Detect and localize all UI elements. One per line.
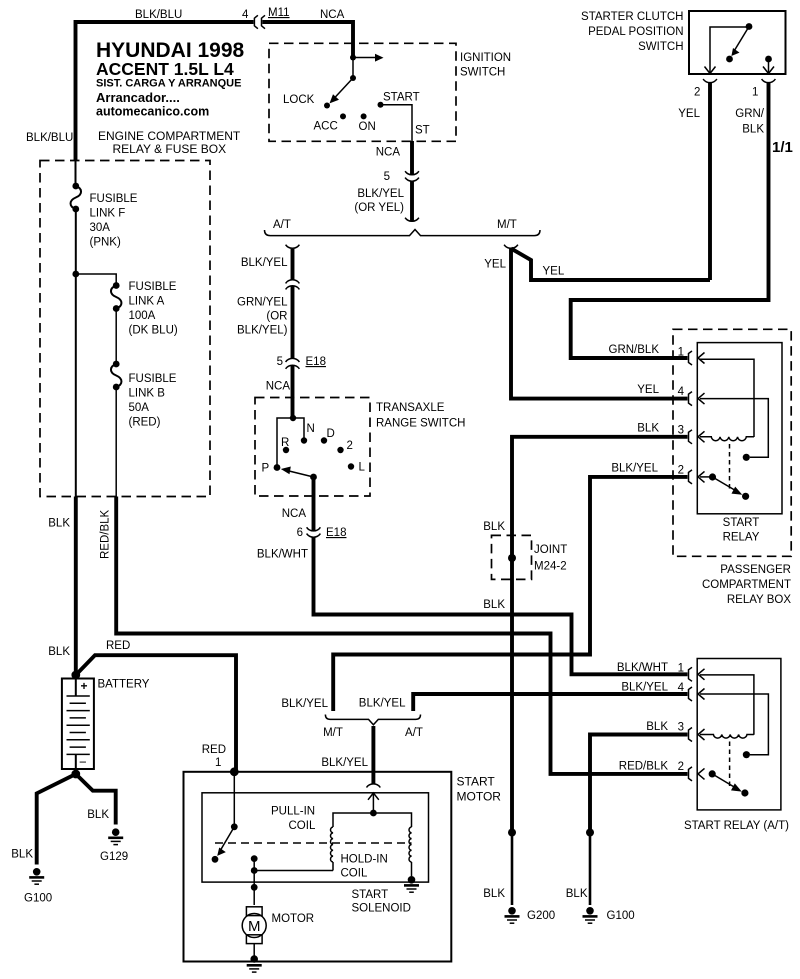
svg-text:G100: G100	[24, 893, 52, 905]
wire RED battery to start motor	[76, 655, 236, 771]
transaxle switch arm	[310, 474, 317, 481]
start relay A/T switch arm	[709, 770, 716, 777]
svg-text:2: 2	[347, 440, 353, 452]
starter clutch pedal position switch box	[689, 11, 786, 74]
pin 2 arrow	[705, 67, 716, 74]
wire BLK/YEL (OR YEL)	[410, 181, 414, 221]
start relay A/T actuator dashed line	[729, 742, 731, 788]
svg-text:1/1: 1/1	[772, 139, 793, 156]
connector A/T branch top	[286, 245, 300, 249]
ground G100 left	[33, 868, 41, 876]
svg-text:JOINT: JOINT	[534, 544, 567, 556]
wire BLK/YEL relay pin2 to M/T bracket	[333, 477, 687, 711]
svg-text:M24-2: M24-2	[534, 561, 567, 573]
start relay A/T pin 2	[689, 767, 693, 781]
contact R	[283, 447, 289, 453]
svg-text:P: P	[262, 463, 270, 475]
svg-text:START: START	[457, 775, 496, 789]
svg-text:COMPARTMENT: COMPARTMENT	[702, 579, 791, 591]
svg-text:3: 3	[678, 425, 684, 437]
svg-text:ACC: ACC	[314, 121, 338, 133]
svg-text:YEL: YEL	[543, 266, 565, 278]
svg-text:2: 2	[678, 465, 684, 477]
svg-text:TRANSAXLE: TRANSAXLE	[376, 402, 445, 414]
wire BLK start relay A/T pin 3 to G100	[590, 735, 688, 833]
svg-text:M/T: M/T	[497, 219, 517, 231]
node transaxle feed	[290, 415, 296, 421]
start motor contact switch	[233, 772, 235, 825]
node splice G200 wire	[508, 829, 516, 837]
svg-text:Arrancador....: Arrancador....	[96, 90, 180, 105]
node solenoid feed	[370, 810, 377, 817]
contact ON	[361, 113, 367, 119]
svg-text:A/T: A/T	[273, 219, 291, 231]
svg-text:BLK: BLK	[566, 888, 588, 900]
wire GRN/BLK pedal pin 1 to start relay pin 1	[571, 83, 769, 358]
svg-text:BLK: BLK	[483, 521, 505, 533]
svg-text:BLK: BLK	[637, 423, 659, 435]
svg-text:ST: ST	[415, 125, 430, 137]
wire BLK battery to G129	[76, 774, 116, 825]
node ignition feed	[350, 55, 356, 61]
svg-text:L: L	[359, 462, 366, 474]
start relay pin 1	[689, 351, 693, 365]
node joint M24-2	[508, 554, 516, 562]
svg-text:COIL: COIL	[341, 868, 368, 880]
svg-text:BLK/YEL: BLK/YEL	[241, 257, 288, 269]
svg-text:MOTOR: MOTOR	[457, 790, 502, 804]
svg-text:BLK: BLK	[483, 888, 505, 900]
svg-text:G100: G100	[607, 910, 635, 922]
svg-text:RED: RED	[202, 744, 226, 756]
svg-text:PULL-IN: PULL-IN	[271, 806, 315, 818]
svg-text:NCA: NCA	[320, 9, 345, 21]
start relay A/T pin 3	[689, 728, 693, 742]
svg-text:NCA: NCA	[376, 147, 401, 159]
svg-text:A/T: A/T	[405, 727, 423, 739]
svg-text:automecanico.com: automecanico.com	[96, 105, 209, 119]
wire down from link F	[75, 209, 77, 497]
wire BLK/YEL bracket to start motor	[371, 726, 375, 784]
node motor contact	[251, 855, 258, 862]
passenger compartment relay box (dashed)	[673, 329, 791, 556]
svg-text:D: D	[327, 428, 335, 440]
svg-text:PEDAL POSITION: PEDAL POSITION	[588, 26, 683, 38]
connector M11	[254, 15, 258, 28]
svg-text:START RELAY (A/T): START RELAY (A/T)	[684, 820, 789, 832]
svg-text:NCA: NCA	[266, 381, 291, 393]
svg-text:BLK/YEL: BLK/YEL	[321, 757, 368, 769]
svg-text:GRN/BLK: GRN/BLK	[609, 344, 660, 356]
pin 2 connector	[703, 79, 717, 83]
start relay switch arm	[709, 473, 716, 480]
svg-text:LINK A: LINK A	[129, 296, 165, 308]
bracket M/T A/T join	[325, 715, 420, 725]
contact P	[274, 464, 281, 471]
start relay A/T internals: pin1 to coil	[700, 675, 754, 735]
start relay pin 2	[689, 470, 693, 484]
wire BLK/BLU inside fuse box	[75, 161, 77, 186]
svg-text:RELAY BOX: RELAY BOX	[727, 594, 791, 606]
svg-text:ENGINE COMPARTMENT: ENGINE COMPARTMENT	[98, 129, 241, 143]
svg-text:BLK: BLK	[646, 721, 668, 733]
ground motor	[250, 955, 258, 963]
arrow down to bracket	[405, 218, 419, 222]
connector inline A/T branch	[286, 280, 300, 284]
wire ST inside box	[381, 105, 413, 141]
solenoid actuator dashed line	[215, 842, 412, 844]
wire NCA to ignition switch	[262, 22, 353, 57]
wire GRN/YEL (OR BLK/YEL)	[291, 286, 295, 358]
fusible link F 30A	[72, 183, 79, 190]
svg-text:PASSENGER: PASSENGER	[720, 564, 791, 576]
svg-text:SWITCH: SWITCH	[460, 67, 505, 79]
svg-text:4: 4	[678, 682, 685, 694]
svg-text:1: 1	[678, 347, 684, 359]
svg-text:6: 6	[297, 527, 303, 539]
svg-text:GRN/: GRN/	[735, 108, 765, 120]
wire NCA into transaxle	[291, 365, 295, 418]
svg-text:RANGE SWITCH: RANGE SWITCH	[376, 418, 465, 430]
wire NCA out of transaxle	[312, 477, 316, 531]
svg-text:2: 2	[694, 87, 700, 99]
start relay A/T pin 1	[689, 667, 693, 681]
node battery +	[71, 671, 80, 680]
svg-text:START: START	[352, 889, 389, 901]
wire ST below ignition	[410, 141, 414, 174]
start relay actuator dashed line	[729, 444, 731, 490]
start relay A/T box	[697, 659, 781, 810]
svg-text:4: 4	[242, 9, 249, 21]
connector M/T branch top	[504, 245, 518, 249]
svg-text:BLK/WHT: BLK/WHT	[257, 549, 308, 561]
svg-text:30A: 30A	[90, 222, 111, 234]
svg-text:50A: 50A	[129, 402, 150, 414]
svg-text:E18: E18	[326, 527, 346, 539]
wire YEL M/T to start relay pin 4	[511, 249, 688, 399]
svg-text:RED/BLK: RED/BLK	[619, 761, 669, 773]
contact ACC	[340, 113, 346, 119]
svg-text:GRN/YEL: GRN/YEL	[237, 297, 288, 309]
svg-text:START: START	[383, 92, 420, 104]
pedal switch internals	[710, 27, 746, 73]
pin 1 connector	[762, 79, 776, 83]
svg-text:1: 1	[215, 757, 221, 769]
svg-text:100A: 100A	[129, 310, 156, 322]
svg-text:ACCENT 1.5L L4: ACCENT 1.5L L4	[96, 59, 234, 79]
ground hold-in coil	[408, 876, 416, 884]
node battery -	[71, 770, 80, 779]
svg-text:(PNK): (PNK)	[90, 237, 121, 249]
svg-text:YEL: YEL	[637, 384, 659, 396]
joint M24-2 box (dashed)	[492, 535, 532, 579]
solenoid inner box	[202, 793, 429, 882]
svg-text:(OR: (OR	[266, 311, 287, 323]
ignition switch box (dashed)	[269, 43, 456, 141]
contact START	[378, 102, 384, 108]
svg-text:1: 1	[752, 87, 758, 99]
contact 2	[337, 447, 343, 453]
svg-text:FUSIBLE: FUSIBLE	[129, 281, 177, 293]
svg-text:BLK/YEL: BLK/YEL	[281, 698, 328, 710]
svg-text:M/T: M/T	[323, 727, 343, 739]
svg-text:5: 5	[384, 171, 390, 183]
contact D	[321, 437, 327, 443]
svg-text:BLK: BLK	[48, 646, 70, 658]
svg-text:BLK/YEL: BLK/YEL	[621, 682, 668, 694]
svg-text:3: 3	[678, 722, 684, 734]
wire pull-in coil to motor	[254, 859, 333, 871]
svg-text:START: START	[723, 517, 760, 529]
start relay pin 4	[689, 392, 693, 406]
wire BLK relay pin3 to joint M24-2 and G200	[512, 437, 688, 832]
start relay box	[697, 343, 782, 514]
node splice G100 wire	[586, 829, 594, 837]
svg-text:RED/BLK: RED/BLK	[100, 509, 112, 559]
svg-text:ON: ON	[359, 121, 376, 133]
ground G200	[508, 907, 516, 915]
wire BLK/WHT to start relay A/T pin 1	[314, 537, 688, 674]
bracket A/T M/T split	[265, 230, 541, 236]
hold-in coil	[373, 813, 411, 827]
svg-text:(OR YEL): (OR YEL)	[354, 202, 404, 214]
start relay A/T coil	[700, 735, 754, 739]
svg-text:LOCK: LOCK	[283, 94, 315, 106]
svg-text:COIL: COIL	[289, 820, 316, 832]
start motor box	[184, 772, 452, 962]
svg-text:R: R	[281, 437, 289, 449]
start relay A/T pin 4	[689, 687, 693, 701]
svg-text:LINK F: LINK F	[90, 208, 126, 220]
svg-text:M: M	[248, 918, 261, 935]
wire YEL pedal pin 2 down	[708, 83, 712, 280]
svg-text:BLK/YEL: BLK/YEL	[611, 463, 658, 475]
wire BLK battery to G100	[37, 774, 76, 865]
svg-text:HOLD-IN: HOLD-IN	[341, 854, 388, 866]
wire BLK/BLU top horizontal	[76, 22, 254, 161]
svg-text:BLK/YEL: BLK/YEL	[359, 698, 406, 710]
arrow right from feed	[353, 57, 376, 59]
svg-text:BLK/WHT: BLK/WHT	[617, 662, 668, 674]
pin 1 arrow	[763, 67, 774, 74]
svg-text:FUSIBLE: FUSIBLE	[129, 373, 177, 385]
battery plates	[75, 679, 77, 697]
svg-text:BLK/BLU: BLK/BLU	[26, 132, 73, 144]
svg-text:BLK/BLU: BLK/BLU	[135, 9, 182, 21]
wire BLK/YEL start relay A/T pin 4 to bracket	[413, 694, 687, 711]
svg-text:(DK BLU): (DK BLU)	[129, 325, 178, 337]
ignition switch arm to LOCK	[334, 78, 354, 99]
svg-text:−: −	[79, 755, 87, 770]
svg-text:5: 5	[277, 356, 283, 368]
wire BLK/YEL A/T branch	[291, 249, 295, 280]
ground G129	[112, 828, 120, 836]
start relay A/T pin4 to contact	[700, 694, 768, 755]
wire YEL M/T to pedal switch	[511, 249, 710, 281]
start relay pin 3	[689, 430, 693, 444]
svg-text:RELAY: RELAY	[723, 532, 760, 544]
node junction to links A/B	[72, 271, 79, 278]
wire RED/BLK down inside box	[115, 387, 117, 497]
svg-text:SIST. CARGA Y ARRANQUE: SIST. CARGA Y ARRANQUE	[96, 78, 241, 90]
svg-text:2: 2	[678, 761, 684, 773]
svg-text:LINK B: LINK B	[129, 388, 166, 400]
transaxle range switch box (dashed)	[255, 398, 370, 497]
wire BLK/YEL entry connector	[367, 784, 381, 788]
svg-text:(RED): (RED)	[129, 417, 161, 429]
svg-text:RED: RED	[106, 640, 130, 652]
pull-in coil	[333, 813, 373, 827]
svg-text:BLK/YEL: BLK/YEL	[357, 188, 404, 200]
svg-text:BATTERY: BATTERY	[98, 679, 150, 691]
svg-text:BLK: BLK	[11, 849, 33, 861]
svg-text:BLK: BLK	[742, 124, 764, 136]
title block	[96, 39, 245, 119]
svg-text:STARTER CLUTCH: STARTER CLUTCH	[581, 11, 683, 23]
node RED at motor terminal 1	[230, 767, 239, 776]
ground G100 bottom	[586, 907, 594, 915]
svg-text:BLK: BLK	[87, 809, 109, 821]
start relay coil	[700, 437, 754, 441]
start relay internals: pin1 to coil	[700, 359, 754, 437]
svg-text:BLK: BLK	[483, 599, 505, 611]
svg-text:G200: G200	[527, 910, 555, 922]
svg-text:YEL: YEL	[678, 108, 700, 120]
svg-text:RELAY & FUSE BOX: RELAY & FUSE BOX	[113, 142, 227, 156]
svg-text:MOTOR: MOTOR	[272, 913, 315, 925]
svg-text:E18: E18	[306, 356, 326, 368]
svg-text:IGNITION: IGNITION	[460, 52, 511, 64]
fusible link A 100A	[113, 282, 120, 289]
svg-text:BLK: BLK	[48, 518, 70, 530]
svg-text:NCA: NCA	[282, 508, 307, 520]
wire between links	[115, 309, 117, 365]
engine compartment relay & fuse box (dashed)	[40, 161, 210, 497]
contact N	[301, 437, 307, 443]
svg-text:BLK/YEL): BLK/YEL)	[237, 325, 288, 337]
svg-text:FUSIBLE: FUSIBLE	[90, 193, 138, 205]
wire motor to ground	[253, 944, 255, 956]
contact L	[348, 463, 354, 469]
svg-text:G129: G129	[100, 851, 128, 863]
svg-text:N: N	[307, 423, 315, 435]
svg-text:1: 1	[678, 663, 684, 675]
svg-text:YEL: YEL	[484, 259, 506, 271]
svg-text:SWITCH: SWITCH	[638, 41, 683, 53]
svg-text:4: 4	[678, 386, 685, 398]
svg-text:+: +	[81, 679, 88, 693]
svg-text:M11: M11	[268, 7, 290, 19]
wire RED/BLK fuse box to start relay A/T pin 2	[116, 497, 687, 774]
fusible link B 50A	[113, 361, 120, 368]
start relay pin4 to contact	[700, 399, 768, 458]
motor M	[246, 907, 262, 916]
svg-text:SOLENOID: SOLENOID	[352, 903, 411, 915]
